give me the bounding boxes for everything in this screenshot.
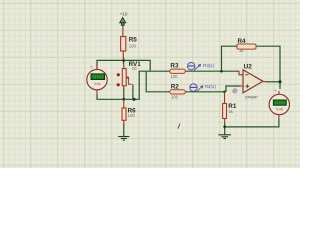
svg-text:100: 100 xyxy=(128,113,136,118)
svg-text:U2: U2 xyxy=(244,64,253,71)
svg-text:Volts: Volts xyxy=(276,107,284,111)
svg-text:R2(1): R2(1) xyxy=(205,84,216,89)
svg-text:R4: R4 xyxy=(238,38,247,45)
svg-text:10: 10 xyxy=(132,66,137,71)
svg-text:R3(1): R3(1) xyxy=(203,63,214,68)
svg-text:100: 100 xyxy=(129,44,137,49)
svg-text:Volts: Volts xyxy=(94,82,102,86)
svg-text:100: 100 xyxy=(171,74,179,79)
svg-text:R3: R3 xyxy=(170,63,179,70)
svg-text:100: 100 xyxy=(171,94,179,99)
svg-text:R2: R2 xyxy=(171,84,180,91)
svg-text:+10: +10 xyxy=(120,12,128,17)
svg-text:OPAMP: OPAMP xyxy=(245,95,258,99)
